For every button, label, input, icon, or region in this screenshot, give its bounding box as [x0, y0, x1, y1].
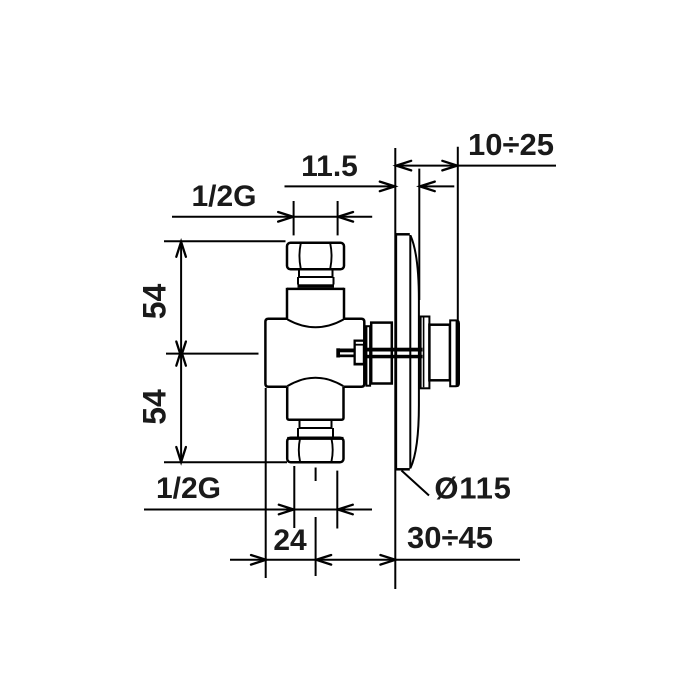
arrow 1/2G bottom right: [338, 505, 353, 515]
arrow 1/2G top right: [338, 212, 353, 222]
arrow 24 left (external): [251, 555, 266, 565]
arrow 10÷25 right: [442, 161, 457, 171]
dim line 1/2G top (y=216.8): [172, 216, 372, 218]
svg-text:54: 54: [137, 389, 173, 425]
stem pin bars: [337, 349, 355, 353]
button barrel: [429, 325, 450, 381]
valve bottom hex nut: [287, 438, 343, 463]
dim line 11.5 (y=186.4): [285, 185, 396, 187]
extension lines 1/2G bottom: [293, 466, 295, 528]
dim line 1/2G bottom (y=509.5): [144, 509, 372, 511]
ext line 54 bottom (y=462.3): [164, 461, 287, 463]
arrow 54 bottom (down): [176, 447, 186, 462]
ext line 54 top (y=241.3): [164, 240, 286, 242]
valve top neck: [298, 269, 334, 284]
arrow 54 middle up: [176, 351, 186, 366]
wall plate face: [395, 234, 398, 469]
upper inlet block: [287, 288, 344, 320]
button rear ring: [421, 317, 430, 389]
arrow 24 right / 30÷45 left: [316, 555, 331, 565]
body bottom fillet arc: [288, 378, 344, 386]
wall plate bottom edge: [395, 468, 410, 471]
arrow 1/2G top left: [278, 212, 293, 222]
button front cap: [450, 320, 459, 386]
wall plate dome silhouette: [411, 236, 419, 469]
bottom nut thick top edge: [287, 437, 343, 440]
arrow 54 top (up): [176, 242, 186, 257]
centerline bottom (x=315.6): [315, 468, 317, 482]
extension line body-left (x=265.7): [265, 388, 267, 578]
valve bottom neck: [298, 420, 333, 438]
svg-text:1/2G: 1/2G: [191, 180, 256, 213]
extension line plate-left (x=395.3, runs top dims to bottom dims): [394, 148, 396, 589]
arrow 11.5 right (external): [420, 182, 435, 192]
arrow 11.5 left (external): [380, 182, 395, 192]
main body outline: [265, 319, 364, 387]
svg-text:1/2G: 1/2G: [156, 472, 221, 505]
extension line button-face (x=457.8): [457, 147, 459, 321]
arrow 54 middle down: [176, 342, 186, 357]
wall plate rim right face: [409, 235, 411, 469]
stem pin end cap: [336, 348, 340, 357]
valve top hex nut: [287, 243, 344, 270]
bonnet ring: [366, 326, 370, 386]
dim line 24 / 30÷45 (y=559.8): [230, 559, 520, 561]
ext line 54 middle (y=353.6): [166, 353, 259, 355]
packing block: [354, 340, 365, 366]
dim line 54 vertical (x=181.1): [180, 241, 182, 462]
leader line Ø115: [402, 471, 430, 496]
svg-text:54: 54: [137, 284, 173, 320]
dim line 10÷25 (y=165.6): [396, 165, 556, 167]
lower outlet block: [287, 387, 343, 420]
svg-text:Ø115: Ø115: [434, 471, 511, 506]
body top fillet arc: [288, 320, 344, 328]
svg-text:10÷25: 10÷25: [468, 127, 554, 162]
top locknut thick bar: [298, 284, 335, 287]
svg-text:24: 24: [273, 524, 307, 557]
flange block: [371, 323, 392, 384]
svg-text:11.5: 11.5: [301, 150, 358, 183]
extension lines 1/2G top: [293, 201, 295, 235]
extension line 11.5-right (x=419.3): [418, 169, 420, 300]
wall plate top edge: [395, 233, 410, 236]
arrow 10÷25 left: [396, 161, 411, 171]
arrow 1/2G bottom left: [279, 505, 294, 515]
arrow 30÷45 right: [380, 555, 395, 565]
stem bars between body and button: [365, 348, 423, 352]
svg-text:30÷45: 30÷45: [407, 520, 493, 555]
